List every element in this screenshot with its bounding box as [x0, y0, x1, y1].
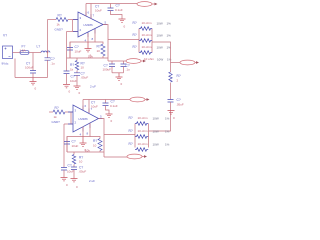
fuse F1: [20, 51, 29, 55]
branch to load stack: [108, 39, 139, 41]
svg-text:10uF: 10uF: [95, 9, 102, 13]
ch2 decoupling cap: [105, 100, 107, 104]
ground top ch1: [119, 19, 126, 22]
svg-text:10: 10: [81, 66, 85, 70]
wire pin2: [67, 31, 79, 33]
svg-text:R?: R?: [58, 14, 62, 18]
ch2 zobel chain: [73, 152, 75, 155]
box bottom rail: [67, 57, 109, 59]
cap bottom rail: [112, 72, 124, 74]
pin8 stub: [88, 30, 95, 43]
svg-text:R?: R?: [70, 63, 74, 67]
branch to ch2 stack: [104, 134, 135, 136]
ch2 stack left rail: [134, 124, 136, 148]
dc source V1 box: [3, 46, 13, 59]
wire down to ch2 stack junction: [149, 102, 171, 131]
svg-text:C?: C?: [51, 57, 55, 61]
ch2 ground zobel: [71, 179, 78, 182]
power bottom rail: [15, 77, 48, 79]
wire V1 bottom drop: [14, 59, 16, 78]
svg-text:C?: C?: [75, 45, 79, 49]
ch2 zobel cap: [71, 167, 77, 170]
svg-text:1%: 1%: [165, 130, 170, 134]
ground inside box: [85, 42, 92, 52]
ch2 junction tie: [70, 112, 72, 124]
inductor L1: [41, 51, 50, 53]
svg-text:R?: R?: [133, 33, 137, 37]
wire fuse to L: [29, 52, 41, 54]
svg-text:1%: 1%: [167, 58, 172, 62]
ground bias: [63, 85, 70, 88]
supply rail ch2: [83, 99, 130, 101]
ch2 ground bias: [61, 178, 68, 181]
ch2 resistor zig 1: [135, 122, 148, 126]
ground out filter: [116, 73, 123, 81]
svg-text:10W: 10W: [157, 58, 163, 62]
ch1 bias cap chain: [66, 32, 68, 72]
U2 output wire: [99, 119, 105, 158]
svg-text:.05uF: .05uF: [81, 76, 89, 80]
right zobel R ch1: [170, 63, 172, 73]
svg-text:1.5A: 1.5A: [20, 49, 26, 53]
op-amp U1: [78, 12, 103, 37]
svg-text:R?: R?: [55, 106, 59, 110]
svg-text:10 ohm: 10 ohm: [144, 57, 155, 61]
wire V1 to fuse: [13, 52, 21, 54]
svg-text:C?: C?: [72, 140, 76, 144]
svg-text:R?: R?: [129, 116, 133, 120]
svg-text:10 ohm: 10 ohm: [138, 142, 149, 146]
svg-text:1k: 1k: [70, 68, 74, 72]
svg-text:10k: 10k: [85, 149, 90, 153]
svg-text:R?: R?: [133, 21, 137, 25]
svg-text:R?: R?: [97, 45, 101, 49]
svg-text:10: 10: [97, 49, 101, 53]
svg-text:R?: R?: [129, 129, 133, 133]
svg-text:1k: 1k: [57, 23, 61, 27]
ch1 zobel chain: [76, 58, 78, 61]
ch2 feedback box top wire: [67, 127, 83, 153]
ch2 resistor zig 2: [135, 135, 148, 139]
off-page connector E3: [180, 60, 199, 65]
svg-text:GND?: GND?: [52, 120, 61, 124]
wire node to E3: [171, 62, 181, 64]
svg-text:GND?: GND?: [55, 28, 64, 32]
svg-text:1%: 1%: [167, 34, 172, 38]
ground zobel ch1: [74, 86, 81, 89]
svg-text:.1u: .1u: [51, 62, 56, 66]
svg-text:10: 10: [79, 160, 83, 164]
off-page connector E4: [130, 97, 150, 102]
capacitor C 0.1u power: [45, 58, 51, 60]
svg-text:10 ohm: 10 ohm: [138, 129, 149, 133]
decoupling cap 0.1uF top: [110, 4, 112, 9]
wire supply up to ch1 input: [47, 20, 49, 53]
svg-text:10W: 10W: [153, 143, 159, 147]
svg-text:R?: R?: [133, 45, 137, 49]
svg-text:0.1uF: 0.1uF: [110, 104, 118, 108]
ch2 pin8 stub: [83, 123, 90, 137]
load stack ch1 right rail: [151, 29, 153, 53]
svg-text:LM386: LM386: [84, 23, 94, 27]
right zobel cap: [168, 100, 174, 103]
wire supply down to C: [47, 53, 49, 58]
resistor zig 3: [139, 51, 152, 55]
stack jog to out node: [152, 42, 171, 63]
U2 pin stubs: [68, 106, 103, 132]
svg-text:LM386: LM386: [79, 117, 89, 121]
ch2 out wire: [104, 156, 127, 158]
svg-text:C?: C?: [116, 4, 120, 8]
svg-text:.05uF: .05uF: [176, 103, 184, 107]
svg-text:10uF: 10uF: [70, 79, 77, 83]
svg-text:R?: R?: [129, 142, 133, 146]
output wire from apex: [103, 25, 108, 62]
svg-text:10W: 10W: [157, 34, 163, 38]
svg-text:10W: 10W: [157, 22, 163, 26]
power ground: [30, 78, 37, 85]
svg-text:10uF: 10uF: [91, 105, 98, 109]
svg-text:10uF: 10uF: [75, 50, 82, 54]
feedback resistor R: [95, 42, 103, 44]
svg-text:10 ohm: 10 ohm: [142, 33, 153, 37]
U2 pin7 stub: [88, 100, 90, 113]
svg-text:100uF: 100uF: [25, 66, 34, 70]
svg-text:C?: C?: [111, 100, 115, 104]
svg-text:L?: L?: [37, 45, 41, 49]
svg-text:9Vdc: 9Vdc: [2, 62, 9, 66]
svg-text:C?: C?: [177, 98, 181, 102]
node supply junction: [47, 52, 49, 54]
zobel cap: [74, 73, 80, 76]
svg-text:10W: 10W: [153, 130, 159, 134]
svg-text:10uF: 10uF: [67, 170, 74, 174]
svg-text:10 ohm: 10 ohm: [138, 116, 149, 120]
pin7 stub: [90, 4, 92, 19]
ch1 feedback box top wire: [70, 33, 88, 58]
out line ch1: [108, 60, 126, 62]
svg-text:1%: 1%: [167, 22, 172, 26]
svg-text:1k: 1k: [54, 115, 58, 119]
svg-text:100uF: 100uF: [103, 68, 112, 72]
svg-text:10W: 10W: [153, 117, 159, 121]
svg-text:10 ohm: 10 ohm: [142, 45, 153, 49]
ch2 stack right rail: [148, 124, 150, 148]
ch2 bias cap chain: [63, 124, 65, 168]
svg-text:10uF: 10uF: [72, 144, 79, 148]
svg-text:V?: V?: [3, 34, 7, 38]
resistor zig 1: [139, 27, 152, 31]
svg-text:10W: 10W: [157, 46, 163, 50]
svg-text:1%: 1%: [165, 143, 170, 147]
svg-text:10k: 10k: [88, 55, 93, 59]
out filter cap2: [123, 61, 125, 64]
ch2 feedback resistor: [90, 137, 100, 139]
svg-text:10 ohm: 10 ohm: [142, 21, 153, 25]
ch2 ground inside box: [80, 137, 87, 147]
off-page connector E1: [137, 2, 158, 7]
svg-text:0.1uF: 0.1uF: [115, 8, 123, 12]
pin6 stub: [85, 4, 87, 17]
svg-text:R?: R?: [177, 74, 181, 78]
out filter cap1: [111, 61, 113, 64]
U2 pin6 stub: [82, 100, 84, 110]
off-page connector E2: [126, 59, 146, 64]
ground right shared: [168, 111, 175, 115]
op-amp U2: [73, 105, 99, 132]
off-page connector E5: [127, 154, 147, 159]
ch2 resistor zig 3: [135, 148, 148, 152]
ch2 input resistor R: [49, 111, 53, 113]
svg-text:.1u: .1u: [126, 68, 131, 72]
supply rail ch1: [86, 3, 137, 5]
wire C down to rail: [47, 60, 49, 77]
resistor zig 2: [139, 39, 152, 43]
capacitor C 100uF power: [32, 53, 34, 71]
svg-text:1%: 1%: [165, 117, 170, 121]
ch1 input resistor R: [48, 19, 57, 21]
junction pin3 to pin2 tie: [72, 20, 74, 32]
load stack ch1 left rail: [138, 29, 140, 53]
svg-text:2 uF: 2 uF: [89, 179, 95, 183]
ch2 box bottom rail: [67, 151, 104, 153]
svg-text:.05uF: .05uF: [79, 170, 87, 174]
ch2 gain cap: [64, 142, 70, 145]
ch2 top ground: [106, 114, 113, 117]
U1 pin stubs: [73, 12, 107, 38]
svg-text:2 uF: 2 uF: [90, 85, 96, 89]
svg-text:R?: R?: [93, 139, 97, 143]
svg-text:10: 10: [93, 144, 97, 148]
ch2 wire pin2: [64, 123, 73, 125]
gain cap C 10uF: [67, 48, 73, 51]
